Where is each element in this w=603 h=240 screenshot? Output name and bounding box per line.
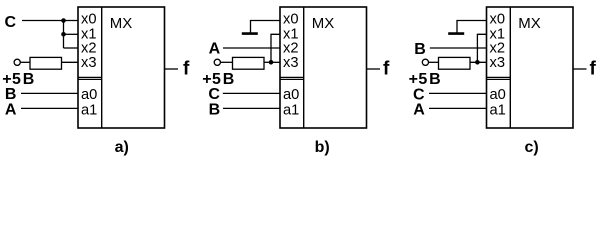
resistor R2 <box>233 57 265 69</box>
U3 section separator lines <box>487 77 511 79</box>
wire C to a0 <box>223 92 280 94</box>
junction dot pull-up net at x3 <box>475 60 480 65</box>
svg-text:x0: x0 <box>283 12 299 28</box>
U1 section separator lines <box>78 77 102 79</box>
wire x0 to ground <box>251 21 281 33</box>
wire C to a0 <box>429 92 487 94</box>
svg-text:C: C <box>5 14 17 31</box>
svg-text:a): a) <box>115 139 129 156</box>
svg-text:B: B <box>414 41 426 58</box>
svg-text:a1: a1 <box>283 102 299 118</box>
junction dot on C net at x1 <box>61 32 66 37</box>
+5V terminal circle <box>214 59 220 65</box>
svg-text:x0: x0 <box>490 12 506 28</box>
wire B to a1 <box>223 107 280 109</box>
svg-text:a0: a0 <box>81 87 97 103</box>
svg-text:В: В <box>429 71 441 88</box>
wire x0 to ground <box>457 21 487 33</box>
wire A to a1 <box>429 107 487 109</box>
wire C net to x2 <box>64 47 79 49</box>
svg-text:x3: x3 <box>283 55 299 71</box>
wire B to x2 <box>430 47 487 49</box>
wire x1 to pull-up net <box>271 34 280 62</box>
wire C to x0 <box>22 20 78 22</box>
wire B to a0 <box>21 92 78 94</box>
junction dot on C net at x0 <box>61 18 66 23</box>
+5V terminal circle <box>422 59 428 65</box>
wire R1 to x3 <box>62 61 79 63</box>
junction dot pull-up net at x3 <box>269 60 274 65</box>
multiplexer U2 body <box>280 7 367 128</box>
svg-text:a1: a1 <box>490 102 506 118</box>
svg-text:MX: MX <box>110 15 133 32</box>
svg-text:A: A <box>413 102 425 119</box>
svg-text:MX: MX <box>312 15 335 32</box>
svg-text:f: f <box>183 58 190 79</box>
svg-text:B: B <box>209 101 221 118</box>
svg-text:b): b) <box>315 139 330 156</box>
svg-text:f: f <box>383 58 390 79</box>
wire +5V terminal to resistor R3 <box>429 61 439 63</box>
wire output f stub <box>573 68 587 70</box>
resistor R3 <box>439 57 471 69</box>
svg-text:MX: MX <box>518 15 541 32</box>
svg-text:a0: a0 <box>490 87 506 103</box>
svg-text:В: В <box>23 71 35 88</box>
ground symbol <box>448 32 464 35</box>
wire A to a1 <box>21 107 78 109</box>
wire +5V terminal to resistor R1 <box>20 61 30 63</box>
svg-text:x0: x0 <box>81 12 97 28</box>
svg-text:a1: a1 <box>81 102 97 118</box>
svg-text:A: A <box>5 101 17 118</box>
svg-text:f: f <box>590 58 597 79</box>
U2 section separator lines <box>280 77 304 79</box>
wire R3 to x3 <box>470 61 487 63</box>
svg-text:c): c) <box>525 139 539 156</box>
svg-text:В: В <box>223 71 235 88</box>
wire A to x2 <box>223 47 280 49</box>
svg-text:x3: x3 <box>81 55 97 71</box>
wire C net to x1 <box>64 33 79 35</box>
ground symbol <box>242 32 258 35</box>
wire +5V terminal to resistor R2 <box>220 61 232 63</box>
multiplexer U3 body <box>487 7 574 128</box>
wire output f stub <box>367 68 381 70</box>
svg-text:A: A <box>209 41 221 58</box>
svg-text:+5: +5 <box>409 71 428 88</box>
wire x1 to pull-up net <box>477 34 486 62</box>
+5V terminal circle <box>14 59 20 65</box>
resistor R1 <box>30 57 62 69</box>
wire output f stub <box>165 68 179 70</box>
svg-text:x3: x3 <box>490 55 506 71</box>
multiplexer U1 body <box>78 7 165 128</box>
svg-text:a0: a0 <box>283 87 299 103</box>
wire C net vertical <box>63 21 65 49</box>
wire R2 to x3 <box>264 61 280 63</box>
